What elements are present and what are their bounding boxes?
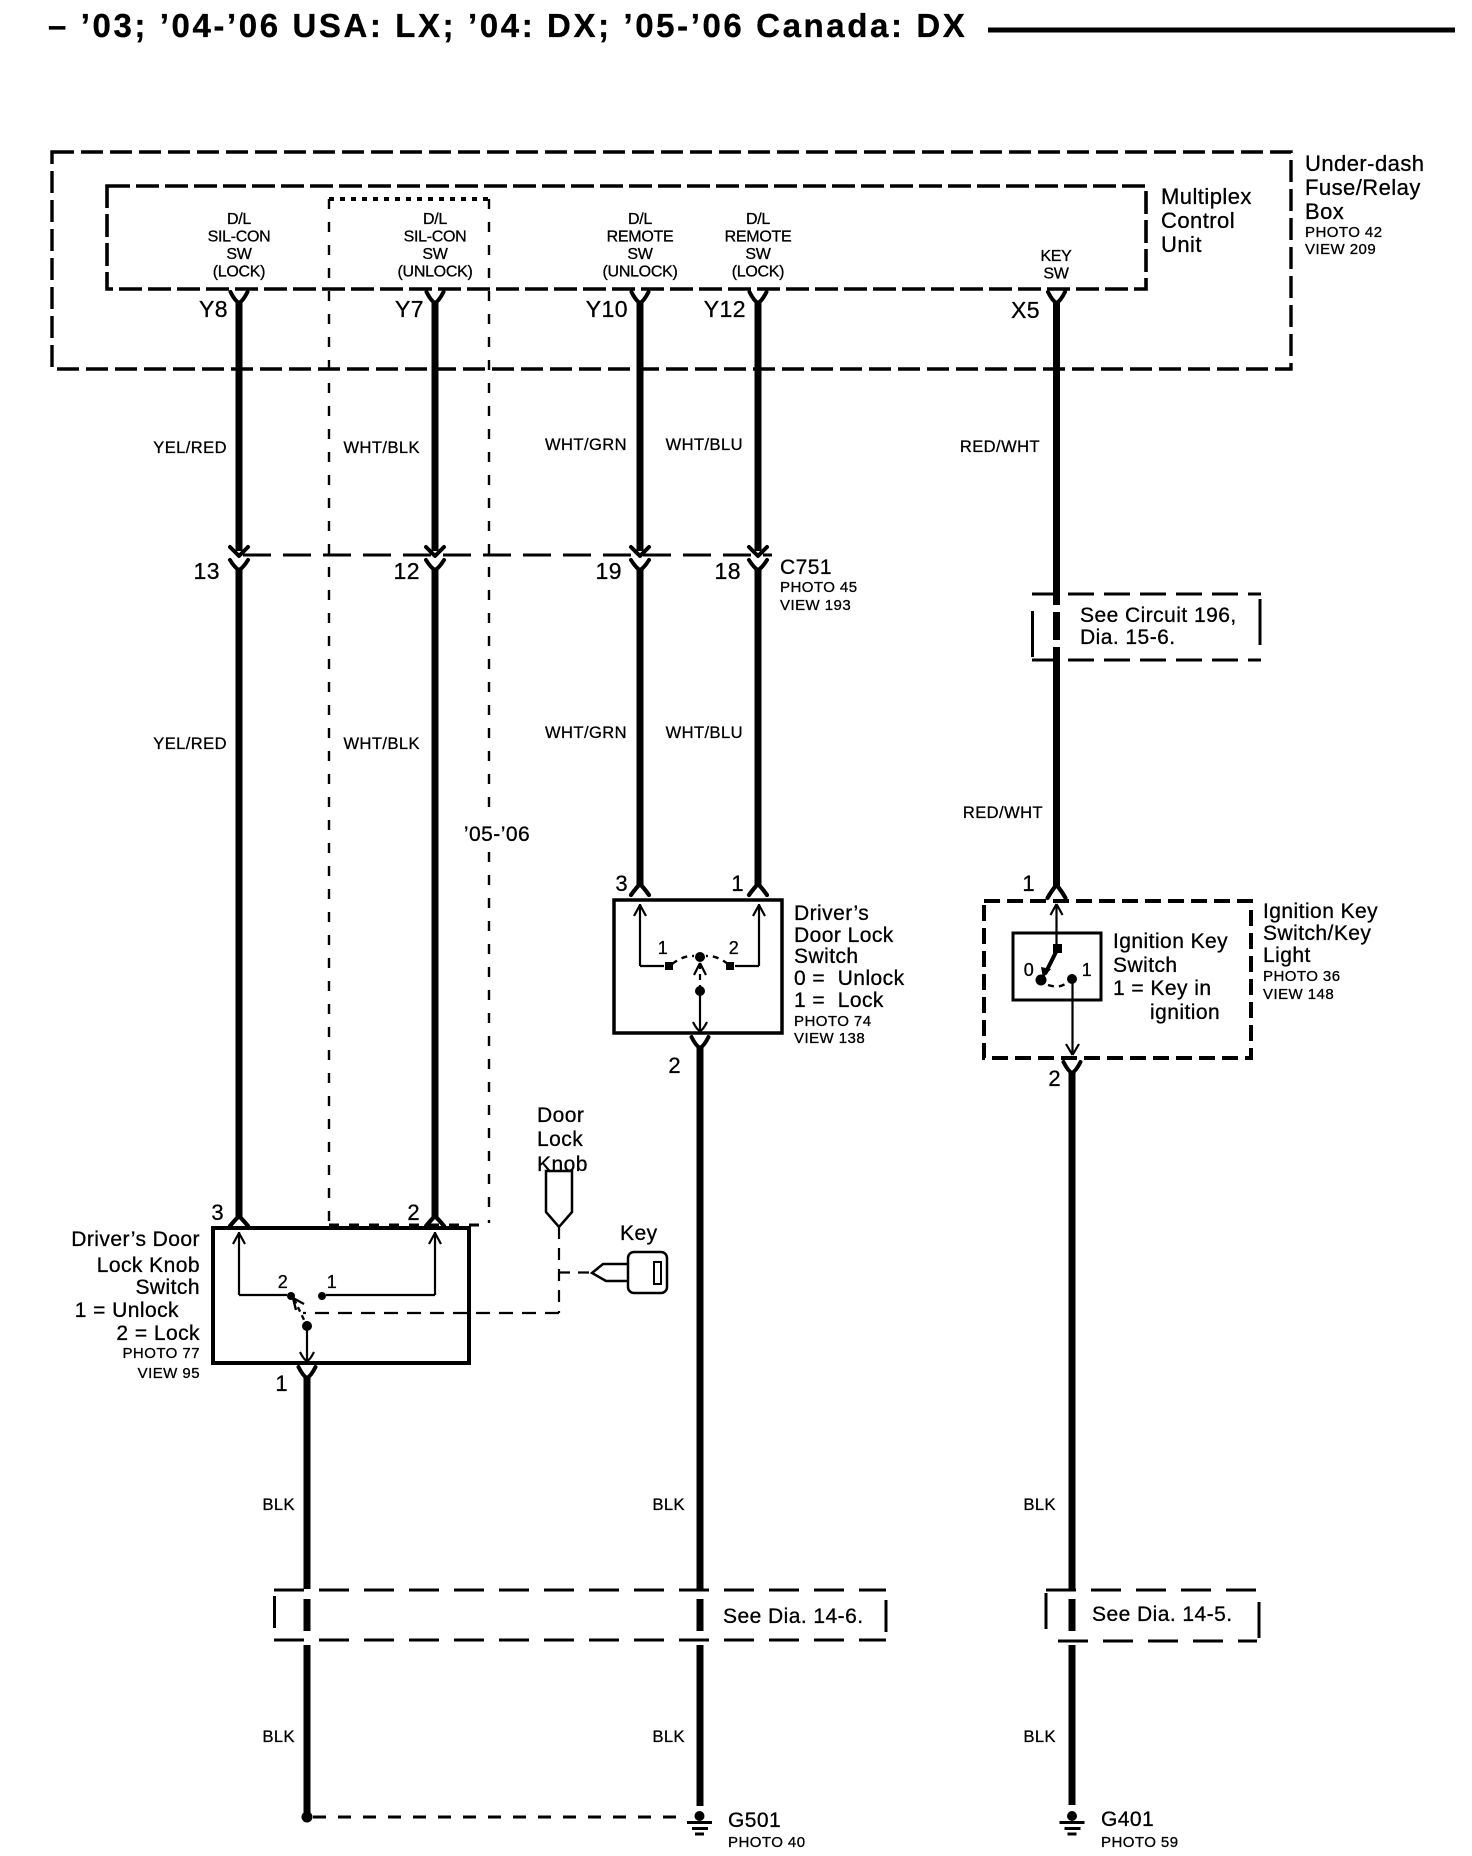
pin label D/L SIL-CON SW (UNLOCK) [398, 211, 473, 281]
connector at ignition pin 1 [1048, 885, 1066, 898]
wire BLK lock switch pin 2 down [697, 1046, 704, 1589]
svg-text:BLK: BLK [652, 1728, 685, 1746]
svg-text:1 = Lock: 1 = Lock [794, 989, 884, 1012]
pin label D/L SIL-CON SW (LOCK) [208, 211, 271, 281]
svg-text:Dia. 15-6.: Dia. 15-6. [1080, 626, 1176, 649]
wire WHT/BLK Y7 to C751 [432, 301, 439, 551]
ground G401 label [1101, 1808, 1179, 1851]
svg-text:Y7: Y7 [395, 296, 424, 322]
svg-text:SW: SW [745, 246, 771, 263]
svg-text:See Dia. 14-5.: See Dia. 14-5. [1092, 1603, 1233, 1626]
svg-text:REMOTE: REMOTE [607, 229, 674, 246]
svg-text:0 = Unlock: 0 = Unlock [794, 967, 905, 990]
connector at lock switch pin 1 [749, 884, 767, 895]
lock switch common lead with up arrow [694, 963, 706, 991]
svg-text:REMOTE: REMOTE [725, 229, 792, 246]
knob switch contact 1 dot [318, 1292, 326, 1300]
svg-text:VIEW 95: VIEW 95 [138, 1365, 200, 1382]
svg-text:WHT/BLU: WHT/BLU [666, 436, 743, 454]
svg-text:2: 2 [407, 1200, 420, 1225]
ignition key switch label [1113, 930, 1228, 1024]
svg-text:2: 2 [278, 1272, 288, 1292]
ignition switch lever [1045, 950, 1057, 974]
svg-text:Under-dash: Under-dash [1305, 151, 1424, 176]
C751 junction at pin 12 [426, 547, 444, 556]
ignition key switch inner box [1013, 933, 1101, 1000]
svg-text:Multiplex: Multiplex [1161, 184, 1252, 209]
svg-text:YEL/RED: YEL/RED [153, 439, 227, 457]
see dia 14-6 callout box [274, 1590, 886, 1640]
svg-text:2: 2 [729, 938, 739, 958]
knob switch internal terminal 2 lead [326, 1232, 441, 1295]
svg-text:Switch: Switch [1113, 954, 1178, 977]
svg-text:2 = Lock: 2 = Lock [116, 1322, 200, 1345]
svg-text:KEY: KEY [1040, 248, 1072, 265]
svg-text:1 = Key in: 1 = Key in [1113, 977, 1211, 1000]
lock switch contact 1 [665, 962, 673, 970]
svg-text:SW: SW [422, 246, 448, 263]
svg-text:– ’03; ’04-’06 USA: LX; ’04: D: – ’03; ’04-’06 USA: LX; ’04: DX; ’05-’06… [48, 7, 967, 44]
svg-text:PHOTO 74: PHOTO 74 [794, 1013, 872, 1030]
connector at knob switch pin 2 [426, 1216, 444, 1226]
ground G501 label [728, 1809, 806, 1851]
lock switch contact 2 [726, 962, 734, 970]
svg-text:SW: SW [226, 246, 252, 263]
wire WHT/BLK C751 to knob switch [432, 568, 439, 1217]
'05-'06 variant dotted box [329, 199, 489, 1225]
ignition internal lead to pin 2 [1066, 980, 1079, 1055]
svg-text:Switch/Key: Switch/Key [1263, 922, 1371, 945]
ignition switch top contact [1053, 944, 1062, 953]
svg-text:Switch: Switch [135, 1276, 200, 1299]
svg-text:ignition: ignition [1150, 1001, 1220, 1024]
pin label D/L REMOTE SW (LOCK) [725, 211, 792, 281]
svg-text:D/L: D/L [746, 211, 770, 228]
ignition switch right contact dot [1067, 974, 1077, 984]
lock switch wiper dashes [672, 956, 694, 964]
svg-text:YEL/RED: YEL/RED [153, 735, 227, 753]
connector fork at lock switch pin 2 [692, 1037, 709, 1048]
svg-text:PHOTO 45: PHOTO 45 [780, 579, 858, 596]
mechanical link knob to switch (dashed) [303, 1227, 592, 1313]
ignition key switch outer dashed box [984, 901, 1251, 1058]
ignition key switch/key light label [1263, 900, 1378, 1003]
svg-text:(UNLOCK): (UNLOCK) [398, 264, 473, 281]
svg-text:Box: Box [1305, 199, 1344, 224]
svg-text:D/L: D/L [628, 211, 652, 228]
ignition switch lever end dot [1036, 975, 1047, 986]
svg-text:18: 18 [715, 558, 741, 584]
svg-text:PHOTO 77: PHOTO 77 [122, 1345, 200, 1362]
svg-text:1: 1 [658, 938, 668, 958]
connector fork at Y12 [750, 292, 767, 303]
svg-text:X5: X5 [1011, 297, 1040, 323]
svg-text:BLK: BLK [652, 1496, 685, 1514]
wire BLK through see dia 14-6 (mid) [697, 1599, 704, 1631]
lock switch common node dot [695, 986, 705, 996]
pin label D/L REMOTE SW (UNLOCK) [603, 211, 678, 281]
svg-text:3: 3 [615, 871, 628, 896]
connector C751 dashed line [243, 554, 772, 557]
svg-text:Control: Control [1161, 208, 1235, 233]
svg-text:Unit: Unit [1161, 232, 1202, 257]
svg-text:WHT/BLU: WHT/BLU [666, 724, 743, 742]
connector fork at Y10 [632, 292, 649, 303]
svg-text:’05-’06: ’05-’06 [464, 823, 530, 846]
ground bus dashed wire [313, 1816, 687, 1819]
svg-text:VIEW 148: VIEW 148 [1263, 986, 1334, 1003]
svg-text:WHT/BLK: WHT/BLK [344, 735, 421, 753]
svg-text:Door: Door [537, 1104, 584, 1127]
svg-text:Ignition Key: Ignition Key [1113, 930, 1228, 953]
svg-text:(UNLOCK): (UNLOCK) [603, 264, 678, 281]
svg-text:1 = Unlock: 1 = Unlock [75, 1299, 179, 1322]
lock switch label [794, 902, 905, 1047]
svg-text:(LOCK): (LOCK) [732, 264, 784, 281]
ground G401 [1060, 1811, 1085, 1834]
wire WHT/BLU C751 to lock switch [755, 568, 762, 885]
svg-text:SW: SW [627, 246, 653, 263]
svg-text:Y12: Y12 [704, 296, 746, 322]
under-dash fuse/relay box (outer dashed box) [52, 152, 1291, 369]
wire BLK ignition pin 2 down [1069, 1071, 1076, 1589]
svg-text:Driver’s Door: Driver’s Door [71, 1228, 200, 1251]
wire WHT/GRN C751 to lock switch [637, 568, 644, 885]
svg-text:SIL-CON: SIL-CON [208, 229, 271, 246]
C751 junction at pin 19 [631, 547, 649, 556]
driver's door lock knob switch box [213, 1228, 469, 1363]
connector at lock switch pin 3 [631, 884, 649, 895]
svg-text:D/L: D/L [423, 211, 447, 228]
svg-text:2: 2 [668, 1053, 681, 1078]
svg-text:D/L: D/L [227, 211, 251, 228]
svg-text:PHOTO 42: PHOTO 42 [1305, 224, 1383, 241]
svg-text:VIEW 193: VIEW 193 [780, 597, 851, 614]
wire RED/WHT to ignition key switch [1053, 647, 1060, 886]
svg-text:0: 0 [1024, 960, 1034, 980]
ignition internal lead from pin 1 [1051, 904, 1063, 947]
connector fork at ignition pin 2 [1064, 1062, 1081, 1073]
svg-text:WHT/BLK: WHT/BLK [344, 439, 421, 457]
wire BLK knob switch pin 1 down [304, 1376, 311, 1589]
pin label KEY SW [1040, 248, 1072, 283]
lock switch wiper pivot [695, 952, 705, 962]
svg-text:PHOTO 40: PHOTO 40 [728, 1834, 806, 1851]
svg-text:Door Lock: Door Lock [794, 924, 894, 947]
svg-text:Fuse/Relay: Fuse/Relay [1305, 175, 1421, 200]
connector at knob switch pin 3 [230, 1216, 248, 1226]
wire WHT/BLU Y12 to C751 [755, 301, 762, 551]
connector fork at X5 [1048, 292, 1065, 303]
svg-text:Y10: Y10 [586, 296, 628, 322]
svg-text:VIEW 209: VIEW 209 [1305, 241, 1376, 258]
svg-text:1: 1 [1022, 871, 1035, 896]
svg-text:12: 12 [394, 558, 420, 584]
svg-text:13: 13 [194, 558, 220, 584]
multiplex control unit label [1161, 184, 1252, 257]
multiplex control unit U1 (inner dashed box) [107, 186, 1146, 289]
driver's door lock switch S1 box [614, 900, 782, 1033]
key symbol [592, 1252, 667, 1293]
lock switch internal terminal 3 lead [634, 904, 664, 966]
wire RED/WHT through see-circuit box [1053, 612, 1060, 640]
door lock knob symbol [546, 1171, 572, 1227]
wire BLK through see dia 14-5 [1069, 1599, 1076, 1631]
svg-text:WHT/GRN: WHT/GRN [545, 724, 627, 742]
svg-text:Y8: Y8 [199, 296, 228, 322]
svg-text:WHT/GRN: WHT/GRN [545, 436, 627, 454]
knob switch contact 2 dot [287, 1292, 295, 1300]
svg-text:(LOCK): (LOCK) [213, 264, 265, 281]
lock switch common lead lower [693, 991, 707, 1031]
lock switch internal terminal 1 lead [735, 904, 765, 966]
svg-text:BLK: BLK [262, 1496, 295, 1514]
svg-text:1: 1 [275, 1371, 288, 1396]
connector C751 label [780, 556, 858, 614]
ignition switch wiper dashes [1048, 982, 1068, 986]
connector fork at Y8 [231, 292, 248, 303]
svg-text:PHOTO 36: PHOTO 36 [1263, 968, 1341, 985]
svg-text:Lock: Lock [537, 1128, 583, 1151]
svg-text:SW: SW [1043, 266, 1069, 283]
title rule [988, 28, 1455, 33]
ground G501 [687, 1811, 712, 1834]
svg-text:G501: G501 [728, 1809, 781, 1832]
svg-text:Ignition Key: Ignition Key [1263, 900, 1378, 923]
svg-text:RED/WHT: RED/WHT [963, 804, 1043, 822]
svg-text:19: 19 [596, 558, 622, 584]
svg-text:3: 3 [211, 1200, 224, 1225]
svg-text:Knob: Knob [537, 1153, 588, 1176]
svg-text:See Dia. 14-6.: See Dia. 14-6. [723, 1605, 864, 1628]
svg-text:Light: Light [1263, 944, 1311, 967]
knob switch pivot dot [302, 1321, 312, 1331]
svg-text:See Circuit 196,: See Circuit 196, [1080, 604, 1237, 627]
wire BLK to G501 node (left) [304, 1645, 311, 1813]
under-dash fuse/relay box label [1305, 151, 1424, 258]
svg-text:BLK: BLK [262, 1728, 295, 1746]
svg-text:Driver’s: Driver’s [794, 902, 869, 925]
svg-text:G401: G401 [1101, 1808, 1154, 1831]
svg-text:PHOTO 59: PHOTO 59 [1101, 1834, 1179, 1851]
connector fork at knob switch pin 1 [299, 1367, 316, 1378]
knob switch internal terminal 3 lead [233, 1232, 287, 1295]
C751 junction at pin 18 [749, 547, 767, 556]
svg-text:BLK: BLK [1023, 1728, 1056, 1746]
door lock knob label [537, 1104, 588, 1176]
wire YEL/RED Y8 to C751 [236, 301, 243, 551]
svg-text:Key: Key [620, 1222, 658, 1245]
see dia 14-5 callout box [1046, 1590, 1259, 1641]
knob switch label [71, 1228, 200, 1382]
see circuit 196 callout box [1032, 594, 1261, 660]
wire BLK to G501 (mid) [697, 1645, 704, 1806]
wire YEL/RED C751 to knob switch [236, 568, 243, 1217]
wire RED/WHT X5 down [1053, 301, 1060, 605]
knob switch common lead [300, 1326, 314, 1361]
svg-text:C751: C751 [780, 556, 832, 579]
connector fork at Y7 [427, 292, 444, 303]
svg-text:1: 1 [1082, 960, 1092, 980]
svg-text:Lock Knob: Lock Knob [97, 1254, 200, 1277]
knob switch wiper dashed with arrow [293, 1298, 307, 1326]
wire WHT/GRN Y10 to C751 [637, 301, 644, 551]
svg-text:VIEW 138: VIEW 138 [794, 1030, 865, 1047]
ground bus node dot [302, 1812, 313, 1823]
svg-text:1: 1 [731, 871, 744, 896]
wire BLK through see dia 14-6 (left) [304, 1599, 311, 1631]
svg-text:BLK: BLK [1023, 1496, 1056, 1514]
svg-text:Switch: Switch [794, 945, 859, 968]
svg-text:SIL-CON: SIL-CON [404, 229, 467, 246]
C751 junction at pin 13 [230, 547, 248, 556]
svg-text:1: 1 [327, 1272, 337, 1292]
svg-text:2: 2 [1048, 1066, 1061, 1091]
svg-text:RED/WHT: RED/WHT [960, 438, 1040, 456]
wire BLK to G401 (right) [1069, 1645, 1076, 1805]
